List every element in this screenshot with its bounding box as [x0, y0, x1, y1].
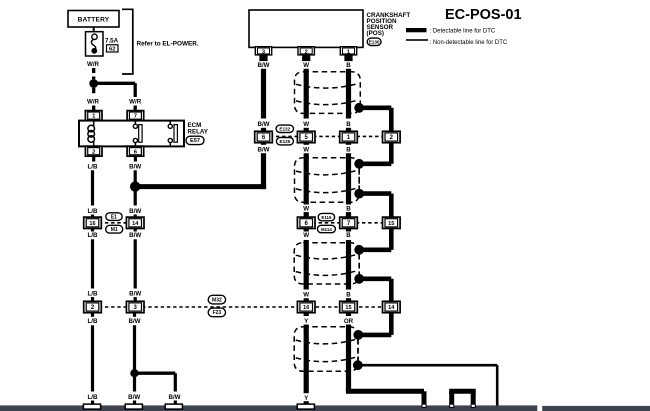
svg-text:16: 16 [89, 221, 95, 227]
svg-text:W/R: W/R [87, 61, 100, 68]
svg-text:E116: E116 [321, 215, 332, 220]
svg-text:W: W [303, 147, 309, 154]
svg-text:F23: F23 [213, 310, 222, 316]
svg-text:W/R: W/R [129, 99, 142, 106]
svg-text:B: B [346, 292, 351, 299]
svg-text:M114: M114 [321, 227, 332, 232]
svg-text:: Non-detectable line for DTC: : Non-detectable line for DTC [430, 40, 508, 46]
svg-text:L/B: L/B [88, 208, 98, 215]
svg-text:E1: E1 [111, 214, 117, 220]
svg-text:Refer to EL-POWER.: Refer to EL-POWER. [137, 40, 199, 47]
svg-text:W: W [303, 292, 309, 299]
svg-text:B/W: B/W [129, 232, 141, 239]
svg-text:E135: E135 [280, 139, 291, 144]
svg-text:W: W [303, 232, 309, 239]
svg-text:B/W: B/W [168, 394, 180, 401]
svg-text:B: B [346, 205, 351, 212]
svg-text:1: 1 [347, 49, 350, 55]
svg-text:B/W: B/W [129, 163, 141, 170]
svg-text:B/W: B/W [257, 121, 269, 128]
svg-text:7: 7 [134, 114, 137, 120]
svg-text:W/R: W/R [87, 99, 100, 106]
svg-text:L/B: L/B [88, 290, 98, 297]
svg-text:7.5A: 7.5A [105, 37, 119, 44]
svg-text:B: B [346, 147, 351, 154]
svg-text:E130: E130 [369, 40, 380, 45]
svg-text:E132: E132 [279, 127, 290, 132]
svg-text:M1: M1 [111, 227, 118, 233]
svg-text:2: 2 [92, 149, 95, 155]
svg-text:L/B: L/B [88, 232, 98, 239]
svg-text:W: W [303, 121, 309, 128]
svg-text:62: 62 [109, 47, 115, 53]
svg-text:L/B: L/B [88, 163, 98, 170]
svg-text:B/W: B/W [257, 62, 269, 69]
svg-text:3: 3 [262, 49, 265, 55]
svg-text:B/W: B/W [128, 394, 140, 401]
svg-text:: Detectable line for DTC: : Detectable line for DTC [430, 29, 496, 35]
svg-text:B/W: B/W [128, 318, 140, 325]
svg-text:(POS): (POS) [367, 30, 385, 37]
svg-text:B: B [346, 232, 351, 239]
svg-text:RELAY: RELAY [188, 128, 209, 135]
svg-text:B: B [346, 121, 351, 128]
svg-text:16: 16 [303, 305, 309, 311]
svg-text:W: W [303, 62, 309, 69]
svg-text:B: B [346, 62, 351, 69]
svg-text:B/W: B/W [257, 147, 269, 154]
svg-text:L/B: L/B [88, 318, 98, 325]
svg-text:B/W: B/W [129, 290, 141, 297]
svg-text:EC-POS-01: EC-POS-01 [445, 7, 522, 23]
svg-text:L/B: L/B [88, 394, 98, 401]
svg-text:14: 14 [388, 305, 395, 311]
svg-text:2: 2 [305, 49, 308, 55]
svg-text:E57: E57 [190, 138, 200, 144]
svg-text:15: 15 [345, 305, 351, 311]
svg-text:15: 15 [388, 221, 394, 227]
svg-text:OR: OR [344, 318, 354, 325]
svg-text:W: W [303, 205, 309, 212]
svg-text:14: 14 [132, 221, 139, 227]
svg-text:B/W: B/W [129, 208, 141, 215]
svg-text:BATTERY: BATTERY [78, 17, 110, 24]
svg-text:M32: M32 [212, 297, 222, 303]
